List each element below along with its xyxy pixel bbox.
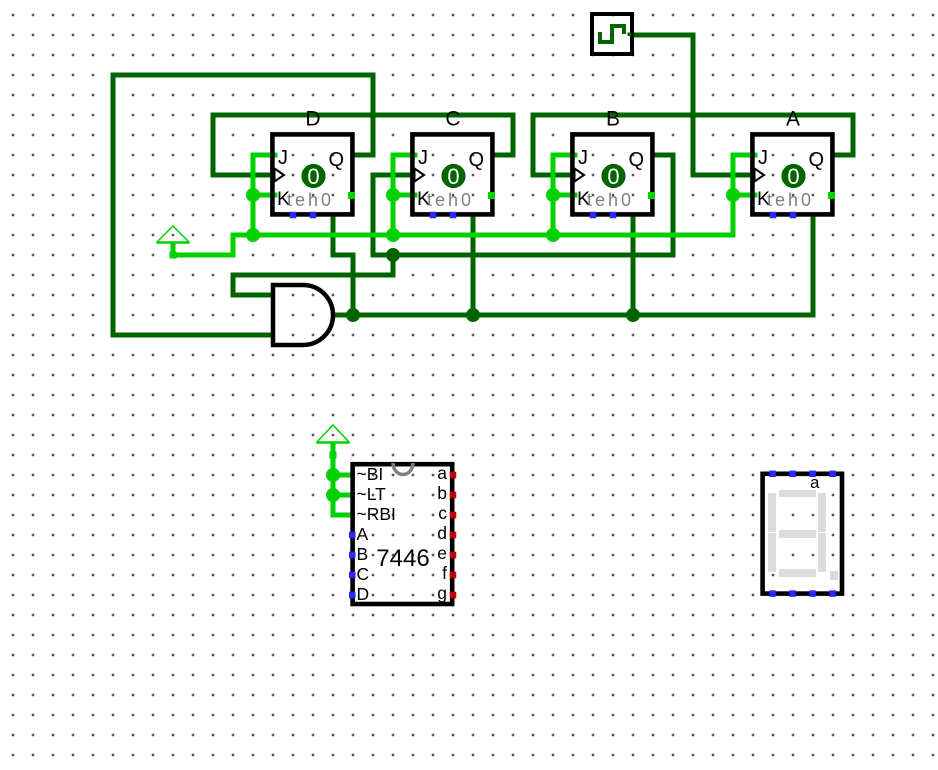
svg-text:teh0: teh0	[767, 190, 814, 210]
svg-text:Q: Q	[468, 149, 484, 171]
svg-text:a: a	[437, 463, 447, 483]
svg-text:Q: Q	[808, 149, 824, 171]
svg-text:~BI: ~BI	[357, 464, 384, 484]
svg-text:b: b	[437, 483, 447, 503]
svg-text:Q: Q	[328, 149, 344, 171]
svg-text:B: B	[357, 544, 369, 564]
svg-text:c: c	[438, 503, 447, 523]
svg-text:B: B	[606, 108, 620, 131]
svg-text:teh0: teh0	[287, 190, 334, 210]
svg-text:0: 0	[307, 164, 319, 189]
svg-text:7446: 7446	[376, 545, 429, 572]
svg-text:teh0: teh0	[587, 190, 634, 210]
svg-text:A: A	[357, 524, 369, 544]
svg-text:0: 0	[447, 164, 459, 189]
svg-text:g: g	[437, 583, 447, 603]
svg-text:J: J	[278, 147, 288, 169]
svg-text:0: 0	[787, 164, 799, 189]
svg-text:J: J	[758, 147, 768, 169]
svg-text:J: J	[418, 147, 428, 169]
svg-text:e: e	[437, 543, 447, 563]
svg-text:~RBI: ~RBI	[357, 504, 396, 524]
svg-text:Q: Q	[628, 149, 644, 171]
svg-text:C: C	[357, 564, 370, 584]
svg-text:teh0: teh0	[427, 190, 474, 210]
svg-text:~LT: ~LT	[357, 484, 387, 504]
svg-text:f: f	[442, 563, 447, 583]
svg-text:D: D	[357, 584, 370, 604]
svg-text:0: 0	[607, 164, 619, 189]
svg-text:C: C	[445, 108, 460, 131]
svg-text:A: A	[786, 108, 800, 131]
svg-text:d: d	[437, 523, 447, 543]
svg-text:a: a	[810, 473, 820, 492]
svg-text:D: D	[305, 108, 320, 131]
svg-text:J: J	[578, 147, 588, 169]
